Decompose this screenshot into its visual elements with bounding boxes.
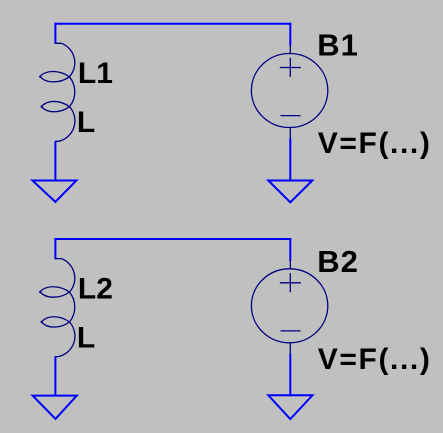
B2 minus sign	[281, 330, 301, 332]
wire: L1 top lead	[54, 23, 56, 44]
wire: net1 top horizontal (L1 to B1)	[54, 23, 291, 25]
behavioral source B1 body	[251, 54, 327, 128]
svg-text:L1: L1	[78, 57, 113, 90]
ground (under L2)	[33, 396, 77, 419]
wire: L2 bottom lead	[54, 357, 56, 397]
B1 minus sign	[281, 115, 301, 117]
wire: L2 top lead	[54, 238, 56, 259]
wire: net2 top horizontal (L2 to B2)	[54, 238, 291, 240]
junction dot: L2 loop tip upper	[39, 291, 41, 293]
svg-text:B1: B1	[317, 28, 359, 63]
svg-text:L: L	[77, 321, 95, 354]
wire: L1 bottom lead	[54, 141, 56, 181]
inductor L2	[40, 259, 75, 357]
B1 pin stub bottom	[289, 128, 291, 140]
B2 pin stub bottom	[289, 343, 291, 355]
wire: B1 top lead	[289, 23, 291, 46]
svg-text:L: L	[77, 106, 95, 139]
svg-text:V=F(...): V=F(...)	[318, 127, 432, 160]
junction dot: L2 loop tip lower	[41, 321, 43, 323]
inductor L1	[40, 43, 75, 141]
wire: B1 bottom lead	[289, 139, 291, 182]
svg-text:B2: B2	[317, 244, 359, 279]
svg-text:V=F(...): V=F(...)	[318, 343, 432, 376]
ground (under L1)	[32, 181, 76, 202]
B1 plus sign	[280, 58, 301, 77]
ground (under B1)	[268, 181, 312, 203]
junction dot: L1 loop tip lower	[41, 106, 43, 108]
B1 pin stub top	[289, 45, 291, 55]
wire: B2 top lead	[289, 238, 291, 261]
ground (under B2)	[268, 395, 312, 419]
junction dot: L1 loop tip upper	[39, 76, 41, 78]
wire: B2 bottom lead	[289, 354, 291, 397]
B2 pin stub top	[289, 260, 291, 270]
behavioral source B2 body	[251, 269, 327, 343]
svg-text:L2: L2	[78, 272, 113, 305]
B2 plus sign	[280, 273, 301, 292]
